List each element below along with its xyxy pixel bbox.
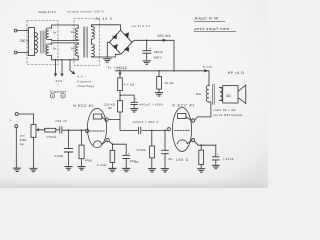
svg-text:9+: 9+ xyxy=(71,30,75,34)
svg-text:6+: 6+ xyxy=(53,47,57,51)
svg-text:470kΩ: 470kΩ xyxy=(46,135,57,139)
svg-text:2,2kΩ: 2,2kΩ xyxy=(97,163,107,167)
svg-text:torique 2x 6 V: torique 2x 6 V xyxy=(38,10,56,14)
svg-text:log: log xyxy=(20,142,24,146)
svg-text:2W: 2W xyxy=(108,107,112,110)
svg-text:10 kΩ: 10 kΩ xyxy=(164,81,174,85)
svg-text:+: + xyxy=(149,46,151,50)
svg-text:chauffage: chauffage xyxy=(77,84,95,88)
svg-text:trafo 5k / 4Ω: trafo 5k / 4Ω xyxy=(214,108,237,112)
svg-text:petit ampli tube: petit ampli tube xyxy=(194,26,230,31)
svg-text:HP ≈4 Ω: HP ≈4 Ω xyxy=(228,71,244,75)
svg-text:10n: 10n xyxy=(168,158,173,161)
svg-text:400 V: 400 V xyxy=(154,56,162,60)
svg-text:½ ECC 81: ½ ECC 81 xyxy=(73,104,94,108)
svg-text:~: ~ xyxy=(57,83,59,87)
svg-text:6+: 6+ xyxy=(53,31,57,35)
svg-text:Ampli ½ W: Ampli ½ W xyxy=(194,16,220,21)
svg-text:440μF / 400V: 440μF / 400V xyxy=(139,102,164,106)
svg-text:150 Ω: 150 Ω xyxy=(176,158,189,162)
svg-text:220nF / 400 V: 220nF / 400 V xyxy=(133,120,159,124)
svg-text:230 V: 230 V xyxy=(20,39,29,43)
svg-text:(ou 2x 115V torique): (ou 2x 115V torique) xyxy=(214,113,243,117)
svg-text:4Ω: 4Ω xyxy=(226,94,231,98)
svg-text:5kΩ: 5kΩ xyxy=(196,92,201,96)
svg-text:25 mA: 25 mA xyxy=(117,67,127,70)
svg-text:filament: filament xyxy=(50,90,67,94)
svg-text:220 μF: 220 μF xyxy=(154,50,164,54)
svg-text:½ ECC 81: ½ ECC 81 xyxy=(172,104,195,108)
svg-text:filament: filament xyxy=(77,79,92,83)
svg-text:0,47μF: 0,47μF xyxy=(55,154,64,158)
svg-text:sec 2x 0,3 A: sec 2x 0,3 A xyxy=(132,25,151,28)
svg-text:220 nF: 220 nF xyxy=(55,119,67,123)
svg-text:4,7 kΩ: 4,7 kΩ xyxy=(124,82,135,86)
svg-text:6 V ~: 6 V ~ xyxy=(77,75,86,79)
svg-text:9+: 9+ xyxy=(71,47,75,51)
svg-text:100 mA: 100 mA xyxy=(157,34,171,38)
svg-text:5 mA: 5 mA xyxy=(203,65,212,69)
svg-text:2x 40 V: 2x 40 V xyxy=(95,17,113,21)
svg-text:220 kΩ: 220 kΩ xyxy=(104,102,116,106)
svg-text:470kΩ: 470kΩ xyxy=(85,160,92,163)
svg-text:≈ 47μF: ≈ 47μF xyxy=(223,157,234,161)
svg-text:470kΩ: 470kΩ xyxy=(136,148,146,152)
svg-text:torique secteur 230 V: torique secteur 230 V xyxy=(67,9,104,13)
